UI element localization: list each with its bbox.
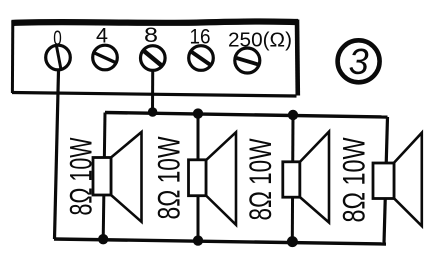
svg-text:8: 8 <box>144 24 158 47</box>
svg-text:250(Ω): 250(Ω) <box>228 30 292 52</box>
svg-text:3: 3 <box>349 41 369 82</box>
svg-text:8Ω 10W: 8Ω 10W <box>335 137 371 222</box>
svg-text:8Ω 10W: 8Ω 10W <box>62 137 98 215</box>
svg-text:16: 16 <box>190 26 211 49</box>
svg-text:8Ω 10W: 8Ω 10W <box>242 138 278 220</box>
svg-text:0: 0 <box>53 27 62 50</box>
svg-text:8Ω 10W: 8Ω 10W <box>152 136 187 219</box>
svg-text:4: 4 <box>96 25 108 48</box>
